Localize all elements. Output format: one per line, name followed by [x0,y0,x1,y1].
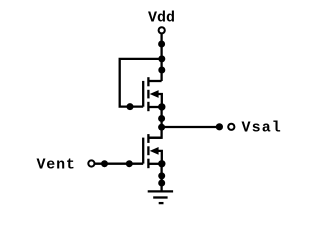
junction dot source/body of M1 [158,103,165,110]
svg-text:Vdd: Vdd [148,10,175,27]
junction dot Vent 2 [126,160,133,167]
junction dot gate-drain tie of M1 [158,55,165,62]
wire feedback loop top (drain to gate of M1) [120,59,162,107]
gate bar M2 [142,138,144,164]
channel segment M2 body [147,146,149,155]
wire Vdd terminal to drain of M1 [160,34,162,81]
junction dot above ground 2 [158,180,165,187]
ground bar 3 [159,202,164,204]
body arrow M1 (points left, NMOS) [150,90,159,98]
body lead M2 [157,151,162,164]
junction dot at Vsal wire end [216,123,223,130]
junction dot Vsal tap [158,124,165,131]
ground bar 2 [153,196,167,198]
channel segment M1 source [147,102,149,111]
source stub M2 [148,163,161,165]
transistor M1 (diode-connected NMOS load) [143,77,162,111]
body arrow M2 (points left, NMOS) [150,147,159,155]
gate bar M1 [142,81,144,107]
terminal Vdd (open circle) [159,27,165,33]
junction dot on gate lead of M1 [127,103,134,110]
svg-text:Vent: Vent [37,157,76,174]
junction dot Vent 1 [101,160,108,167]
terminal Vent (open circle) [88,160,94,166]
svg-text:Vsal: Vsal [242,120,282,137]
junction dot drain lead of M1 [158,67,165,74]
terminal Vsal (open circle) [228,124,234,130]
wire M2 source to ground [160,164,162,192]
wire output to Vsal terminal [162,126,220,128]
channel segment M2 drain [147,134,149,143]
body lead M1 [157,94,162,107]
channel segment M2 source [147,159,149,169]
node Vsal label [242,120,282,137]
transistor M2 (NMOS driver) [143,134,162,168]
wire output node vertical (M1 source to M2 drain) [148,107,161,138]
junction dot source/body of M2 [158,160,165,167]
wire Vent terminal to gate of M2 [95,163,143,165]
junction dot above ground 1 [158,172,165,179]
node Vent label [37,157,76,174]
ground bar 1 [148,190,173,192]
channel segment M1 drain [147,77,149,86]
node Vdd label [148,10,175,27]
junction dot below Vdd terminal [158,41,165,48]
source stub M1 [148,106,161,108]
channel segment M1 body [147,90,149,99]
drain stub M1 [148,80,161,82]
drain stub M2 [148,137,161,139]
junction dot on output node [158,115,165,122]
ground symbol [148,191,173,203]
